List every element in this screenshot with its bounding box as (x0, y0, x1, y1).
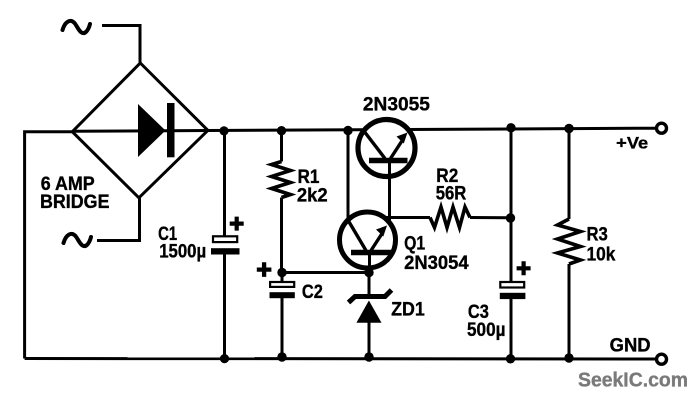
svg-text:2N3054: 2N3054 (404, 253, 469, 274)
svg-text:2N3055: 2N3055 (363, 95, 430, 116)
svg-text:BRIDGE: BRIDGE (40, 192, 110, 213)
svg-text:C2: C2 (302, 282, 323, 303)
svg-text:10k: 10k (587, 244, 616, 265)
svg-text:SeekIC.com: SeekIC.com (578, 370, 688, 392)
svg-text:ZD1: ZD1 (391, 300, 425, 321)
svg-text:+Ve: +Ve (616, 133, 648, 152)
svg-text:R3: R3 (587, 224, 608, 245)
svg-text:500µ: 500µ (467, 320, 506, 341)
svg-text:1500µ: 1500µ (159, 242, 206, 263)
svg-text:GND: GND (610, 335, 651, 356)
svg-text:56R: 56R (436, 184, 467, 205)
svg-text:2k2: 2k2 (297, 186, 328, 207)
svg-text:Q1: Q1 (404, 233, 425, 254)
